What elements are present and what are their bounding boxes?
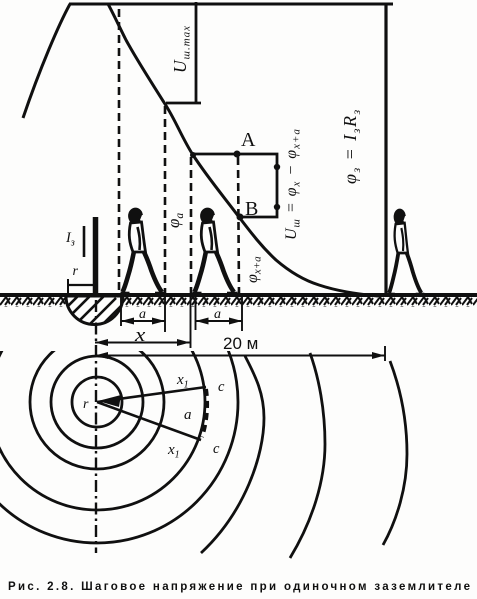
equipotential circle 5 bbox=[0, 261, 238, 543]
hemisphere electrode outline bbox=[66, 296, 123, 325]
dashed vertical at x (person2 back foot) bbox=[190, 157, 193, 295]
node dot at curve/rect corner bbox=[190, 152, 196, 158]
equipotential circle 1 bbox=[72, 377, 122, 427]
node A dot bbox=[234, 151, 241, 158]
svg-text:φз = IзRз: φз = IзRз bbox=[340, 108, 363, 184]
dimension 20 m bbox=[95, 355, 385, 357]
dot on right edge lower bbox=[274, 204, 280, 210]
svg-text:Uш = φx − φx+a: Uш = φx − φx+a bbox=[283, 128, 303, 240]
dashed vertical through A and B (person2 front foot) bbox=[238, 157, 239, 295]
svg-text:x1: x1 bbox=[167, 442, 180, 461]
svg-text:a: a bbox=[214, 307, 221, 322]
extension tick x=121 bbox=[120, 297, 122, 326]
r dimension tick and line bbox=[67, 279, 69, 294]
svg-text:Uш.max: Uш.max bbox=[170, 25, 193, 73]
svg-text:x1: x1 bbox=[176, 372, 189, 391]
dimension x bbox=[95, 342, 190, 344]
hemisphere hatch bbox=[56, 284, 127, 333]
svg-text:φx+a: φx+a bbox=[244, 256, 264, 283]
ground line bbox=[0, 293, 477, 297]
equipotential circle 4 bbox=[0, 294, 205, 510]
svg-text:x: x bbox=[134, 324, 146, 346]
svg-text:a: a bbox=[184, 407, 192, 423]
svg-text:Iз: Iз bbox=[65, 230, 75, 249]
U sh.max bracket bottom bbox=[166, 102, 201, 105]
outer arc 3 bbox=[383, 361, 407, 545]
radial line lower x1 bbox=[97, 402, 201, 440]
dimension a (second step) bbox=[196, 320, 243, 322]
svg-text:20 м: 20 м bbox=[223, 334, 258, 353]
dashed vertical at first step x=165 bbox=[164, 106, 167, 295]
dashed vertical at electrode edge x=119 bbox=[118, 9, 121, 295]
person 3 walking bbox=[387, 209, 424, 295]
dot on right edge upper bbox=[274, 164, 280, 170]
svg-text:c: c bbox=[218, 379, 225, 395]
equipotential circle 3 bbox=[30, 335, 164, 469]
outer arc 2 bbox=[290, 353, 325, 558]
rectangle A-B bbox=[192, 154, 277, 217]
ground hatch bbox=[0, 297, 477, 307]
main potential curve (right branch) bbox=[108, 4, 378, 296]
svg-text:B: B bbox=[245, 198, 258, 220]
right vertical line at 20 m bbox=[384, 3, 387, 296]
svg-text:r: r bbox=[73, 264, 79, 279]
extension tick x=190 bbox=[190, 297, 192, 348]
svg-text:φa: φa bbox=[164, 213, 186, 228]
extension tick x=195 bbox=[195, 297, 197, 330]
vertical dash-dot axis bbox=[95, 300, 97, 553]
U sh.max bracket vertical bbox=[195, 2, 198, 103]
svg-text:A: A bbox=[241, 129, 256, 151]
step arc a between c points bbox=[202, 389, 207, 437]
radial line upper x1 bbox=[97, 387, 206, 402]
svg-text:r: r bbox=[83, 397, 89, 412]
svg-text:a: a bbox=[139, 307, 146, 322]
top potential line phi_z bbox=[69, 3, 393, 6]
svg-text:c: c bbox=[213, 441, 220, 457]
current arrow stroke beside I_z bbox=[83, 226, 86, 257]
equipotential circle 2 bbox=[51, 356, 143, 448]
extension tick x=385 (20 m end) bbox=[384, 346, 386, 361]
svg-text:Рис. 2.8. Шаговое напряжение п: Рис. 2.8. Шаговое напряжение при одиночн… bbox=[8, 581, 470, 593]
dimension a (first step) bbox=[121, 320, 165, 322]
person 2 walking bbox=[193, 208, 238, 294]
outer arc 1 (hand drawn) bbox=[201, 356, 264, 553]
electrode stem bbox=[93, 217, 99, 296]
extension tick x=242 bbox=[241, 297, 243, 331]
left branch of potential curve bbox=[23, 4, 70, 118]
person 1 walking bbox=[121, 208, 166, 294]
extension tick x=165 bbox=[164, 297, 166, 332]
center wedge bbox=[98, 395, 121, 407]
node B dot bbox=[237, 214, 244, 221]
